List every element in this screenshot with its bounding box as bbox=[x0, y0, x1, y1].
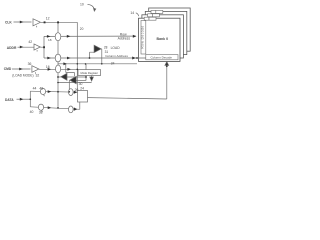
svg-text:CMD: CMD bbox=[4, 67, 12, 71]
svg-text:26: 26 bbox=[75, 88, 79, 92]
svg-text:ADDR: ADDR bbox=[7, 46, 17, 50]
svg-text:24: 24 bbox=[80, 86, 84, 90]
svg-text:46: 46 bbox=[39, 86, 43, 90]
svg-text:LOAD: LOAD bbox=[111, 46, 121, 50]
svg-text:32: 32 bbox=[36, 74, 40, 78]
svg-text:38: 38 bbox=[39, 111, 43, 115]
svg-text:40: 40 bbox=[30, 110, 34, 114]
svg-text:(LOAD MODE): (LOAD MODE) bbox=[12, 73, 33, 77]
svg-text:44: 44 bbox=[33, 86, 37, 90]
svg-text:18: 18 bbox=[48, 38, 52, 42]
svg-text:DATA: DATA bbox=[5, 98, 14, 102]
svg-text:CLK: CLK bbox=[5, 20, 12, 24]
svg-text:42: 42 bbox=[28, 40, 32, 44]
svg-text:Column Decode: Column Decode bbox=[150, 55, 172, 59]
svg-text:34: 34 bbox=[111, 62, 115, 66]
svg-text:16: 16 bbox=[46, 65, 50, 69]
svg-text:Address: Address bbox=[118, 37, 131, 41]
svg-text:14: 14 bbox=[130, 11, 134, 15]
svg-text:12: 12 bbox=[46, 17, 50, 21]
svg-text:Bank 0: Bank 0 bbox=[157, 37, 169, 41]
svg-text:36: 36 bbox=[28, 62, 32, 66]
svg-text:Row Decode: Row Decode bbox=[141, 25, 145, 48]
svg-text:Column Address: Column Address bbox=[105, 54, 128, 58]
svg-text:20: 20 bbox=[80, 27, 84, 31]
svg-text:10: 10 bbox=[80, 2, 84, 6]
svg-text:Mode Register: Mode Register bbox=[80, 71, 98, 75]
